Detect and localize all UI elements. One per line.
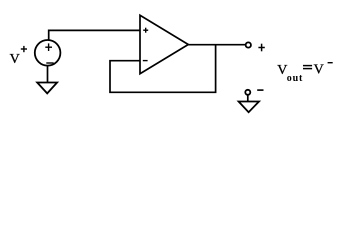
stem to right ground [247, 95, 249, 101]
output terminal [246, 42, 251, 47]
op-amp - input mark [143, 60, 148, 62]
ground (right) [239, 102, 259, 113]
wire from source top to op-amp noninverting input [49, 30, 140, 39]
plus label at output [258, 44, 264, 52]
op-amp U1 [140, 15, 188, 73]
reference terminal circle (right ground) [245, 90, 250, 95]
ground (left) [37, 83, 57, 94]
minus sign in source [46, 62, 53, 64]
svg-text:V: V [10, 52, 20, 67]
output wire [188, 44, 245, 46]
minus label at reference terminal [257, 89, 263, 91]
op-amp + input mark [143, 28, 148, 33]
wire source bottom to ground [47, 66, 49, 82]
voltage source V+ [35, 40, 61, 66]
svg-text:out: out [287, 73, 303, 84]
plus sign in source [45, 43, 52, 51]
svg-text:V: V [314, 63, 324, 78]
feedback wire: inverting input loop to output [110, 46, 216, 93]
